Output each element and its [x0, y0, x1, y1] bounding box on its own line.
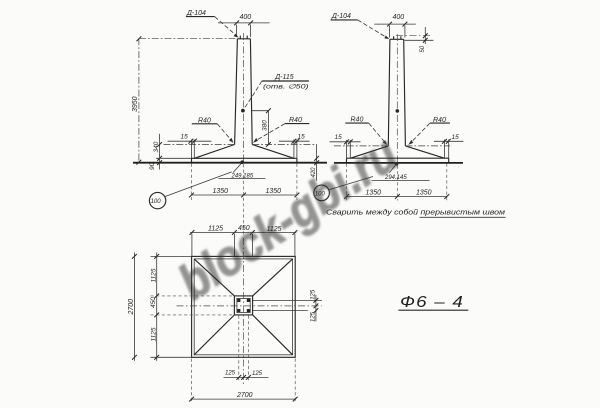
svg-text:400: 400: [240, 14, 252, 21]
svg-text:15: 15: [181, 133, 189, 140]
plan right dim 125/125: [253, 295, 322, 321]
plan diagonals: [194, 259, 292, 355]
haunch slopes: [194, 145, 294, 159]
svg-text:1350: 1350: [213, 188, 229, 195]
column centerline: [243, 33, 245, 164]
plan inner square (chamfer): [194, 259, 292, 355]
section mark circle 100 left: [149, 192, 165, 208]
svg-text:125: 125: [252, 371, 263, 377]
svg-text:(отв. ∅50): (отв. ∅50): [263, 84, 309, 91]
svg-text:Ф6 – 4: Ф6 – 4: [400, 294, 464, 311]
anchor bolt stubs right column: [394, 36, 401, 39]
svg-text:90: 90: [149, 162, 156, 170]
svg-text:400: 400: [393, 14, 405, 21]
svg-text:450: 450: [150, 297, 157, 308]
dim 15 right: [279, 140, 310, 142]
plan centerline horizontal: [177, 305, 322, 307]
svg-text:125: 125: [225, 371, 236, 377]
elevation mark right view: [395, 162, 399, 166]
dim 15 left: [168, 140, 212, 142]
slab rectangle right view: [347, 158, 449, 163]
plan extension lines left: [151, 256, 192, 357]
dim 420 right of slab: [316, 144, 318, 180]
weld note underline: [420, 216, 506, 218]
centerline continuation to plan: [243, 164, 245, 236]
column centerline right: [396, 34, 398, 166]
dim 90 left: [159, 158, 161, 169]
svg-text:125: 125: [311, 289, 317, 300]
dim 380 vertical: [251, 111, 269, 145]
plan top dim 1125/450/1125: [190, 232, 296, 234]
slab rectangle: [192, 158, 297, 162]
svg-text:50: 50: [420, 45, 426, 52]
plan bottom dim 125/125: [239, 316, 249, 381]
svg-text:1125: 1125: [151, 268, 158, 282]
column base level line right view: [334, 145, 450, 147]
plan left dim 1125/450/1125: [156, 253, 158, 361]
dim 340 left: [159, 134, 161, 159]
svg-text:Д-104: Д-104: [331, 13, 351, 20]
svg-text:380: 380: [262, 120, 269, 131]
section mark circle 100 right: [314, 185, 330, 201]
ground bottom line right view: [334, 162, 463, 164]
svg-text:2700: 2700: [236, 392, 253, 399]
column outline right view: [388, 39, 405, 146]
anchor bolts in plan: [237, 299, 240, 302]
plan bottom dim 2700: [192, 359, 296, 403]
centerline continuation below: [396, 166, 398, 201]
svg-text:15: 15: [298, 133, 306, 140]
dim 3950 overall height: [138, 38, 140, 162]
extension verticals slab edges up: [347, 140, 449, 159]
haunch slopes right view: [350, 146, 444, 158]
leader from right circle: [329, 177, 373, 190]
bottom dim 1350+1350 right view: [347, 196, 447, 198]
column cross-section square: [234, 296, 252, 315]
watermark: [169, 127, 407, 310]
extension line column top to height dim: [139, 37, 237, 39]
slab top extension to left: [156, 157, 192, 159]
bottom dim 1350+1350 left view: [192, 194, 297, 196]
elevation mark on slab bottom: [240, 160, 244, 164]
column base level line: [164, 144, 317, 146]
svg-text:1125: 1125: [151, 327, 158, 341]
anchor bolt stubs on column top: [240, 36, 247, 39]
dim 50 top right: [396, 35, 432, 37]
svg-text:15: 15: [452, 134, 460, 141]
svg-text:15: 15: [335, 134, 343, 141]
plan centerline vertical: [243, 238, 245, 385]
svg-text:Сварить между собой прерывисты: Сварить между собой прерывистым швом: [326, 209, 505, 217]
svg-text:100: 100: [151, 199, 162, 205]
column outline left view: [235, 39, 253, 145]
dim 15 right (right view): [434, 140, 464, 142]
plan outer square: [192, 256, 296, 357]
svg-text:125: 125: [311, 311, 317, 322]
dim 15 left (right view): [330, 141, 361, 143]
plan left dim 2700: [133, 253, 135, 361]
svg-text:3950: 3950: [132, 96, 139, 112]
svg-text:1350: 1350: [416, 190, 432, 197]
hole dot right column: [396, 109, 400, 113]
leader from circle to slab: [165, 172, 232, 197]
title underline: [398, 309, 468, 311]
svg-text:340: 340: [153, 141, 160, 152]
ground bottom line: [133, 162, 327, 164]
hole dot D-115: [241, 109, 245, 113]
svg-text:2700: 2700: [128, 299, 135, 316]
svg-text:Д-115: Д-115: [274, 74, 294, 81]
